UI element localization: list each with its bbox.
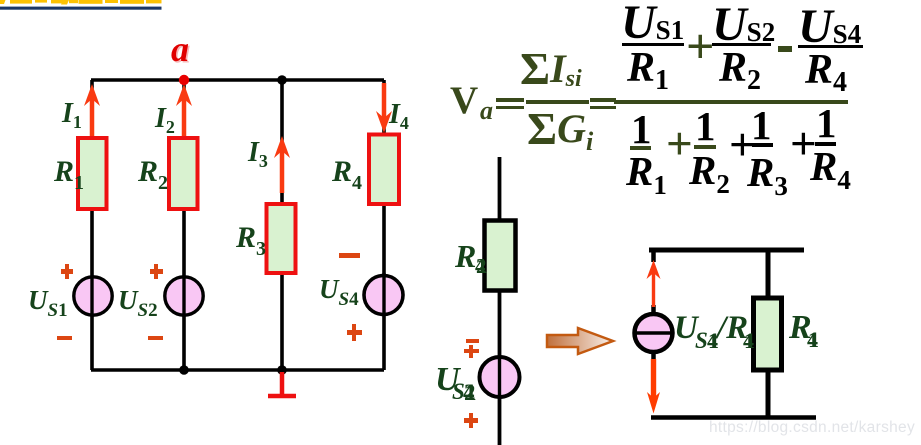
- right circuit: left branch wire upper: [651, 248, 656, 262]
- voltage source US4: [364, 276, 403, 315]
- right circuit: right branch wire: [766, 248, 771, 420]
- current arrow I4 (downwards): [376, 83, 392, 133]
- label R2: [138, 157, 168, 193]
- equals 2: [590, 98, 616, 102]
- current arrow I2: [176, 84, 192, 136]
- numerator fraction US4/R4: [798, 3, 861, 51]
- wire through USk: [498, 357, 501, 397]
- wire: bottom bus of left circuit: [91, 368, 384, 372]
- right circuit resistor R: [754, 298, 782, 370]
- main fraction bar: [614, 100, 848, 104]
- watermark: [709, 420, 915, 436]
- middle branch wire: [498, 157, 502, 445]
- wire: branch 2 vertical: [182, 80, 186, 370]
- minus (numerator): [778, 46, 792, 52]
- polarity + of US1: [61, 264, 74, 279]
- denominator fraction 1/R2: [695, 106, 716, 147]
- polarity + of US4: [347, 324, 362, 341]
- sum Isi / sum Gi : numerator: [520, 46, 582, 92]
- Va: [450, 81, 478, 120]
- label R1: [54, 157, 84, 193]
- title fragment (clipped yellow heading strokes): [0, 0, 170, 12]
- ground symbol (red): [268, 372, 296, 396]
- wire: branch 3 vertical: [280, 80, 284, 370]
- current arrow I3: [274, 136, 290, 193]
- current source arrow up: [647, 260, 661, 307]
- frac1 bar: [526, 100, 589, 104]
- right circuit: left branch wire lower stub: [651, 353, 656, 362]
- sum Gi : denominator: [527, 106, 593, 155]
- polarity - of US2: [148, 336, 163, 341]
- current arrow I1: [84, 84, 100, 136]
- denominator fraction 1/R1: [631, 109, 652, 150]
- middle branch voltage source USk: [480, 357, 520, 397]
- middle branch resistor Rk: [485, 221, 516, 291]
- equals 1: [496, 98, 524, 102]
- title underline: [0, 7, 162, 10]
- plus (denominator 3): [790, 121, 817, 168]
- label R3: [236, 223, 266, 259]
- resistor R2: [169, 138, 198, 209]
- node a junction dot (red): [179, 75, 189, 85]
- current source bar: [634, 331, 673, 335]
- voltage source US1: [74, 277, 112, 315]
- label US1: [28, 287, 68, 320]
- label I2: [155, 105, 175, 136]
- resistor R1: [78, 138, 107, 209]
- right circuit: bottom wire: [651, 415, 816, 420]
- polarity + of US2: [150, 264, 163, 279]
- right circuit label USk/Rk: [674, 312, 698, 345]
- wire through US2: [182, 276, 185, 316]
- plus (numerator): [686, 21, 715, 71]
- numerator fraction US1/R1: [621, 0, 684, 47]
- wire through US4: [382, 273, 385, 313]
- voltage source US2: [165, 277, 203, 315]
- node label a: [171, 31, 189, 67]
- block arrow (transform): [547, 328, 613, 354]
- middle branch + bottom: [464, 413, 478, 428]
- denominator fraction 1/R4: [816, 103, 837, 144]
- numerator fraction US2/R2: [712, 1, 775, 49]
- right circuit: top wire: [649, 248, 804, 253]
- wire: branch 4 vertical: [382, 80, 386, 370]
- current source circle: [635, 314, 673, 352]
- wire: top bus of left circuit: [91, 78, 384, 82]
- denominator fraction 1/R3: [751, 105, 772, 146]
- polarity - of US1: [57, 336, 72, 341]
- label I4: [389, 101, 409, 132]
- resistor R3: [267, 204, 296, 273]
- label I1: [62, 100, 82, 131]
- junction dot bottom bus branch3: [277, 365, 287, 375]
- middle branch label Rk (overlapped subscripts): [455, 240, 476, 272]
- polarity - of US4: [339, 253, 360, 258]
- wire: left branch lower segment to circle: [651, 305, 656, 313]
- wire through US1: [90, 276, 93, 316]
- label R4: [332, 157, 362, 193]
- middle branch label USk: [435, 363, 460, 397]
- current source arrow down (thick): [647, 359, 660, 414]
- junction dot top (black): [277, 75, 287, 85]
- middle branch overlapped +/- top: [464, 345, 479, 359]
- right circuit label R: [789, 311, 812, 345]
- wire: branch 1 vertical: [90, 80, 94, 370]
- label I3: [248, 139, 268, 170]
- label US2: [118, 287, 158, 320]
- label US4: [319, 276, 359, 309]
- plus (denominator 2): [729, 122, 756, 169]
- junction dot bottom bus branch2: [179, 365, 189, 375]
- resistor R4: [369, 135, 399, 205]
- plus (denominator 1, olive): [666, 121, 693, 168]
